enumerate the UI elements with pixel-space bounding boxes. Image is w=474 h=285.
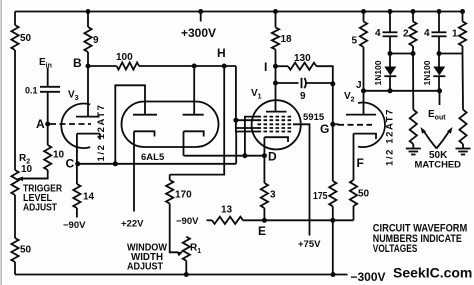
wire resistor 2 to junction [412,46,414,54]
node C to 6AL5 left plate junction [113,161,118,166]
resistor 50 lower-left [11,238,18,262]
node rail-B junction dot [86,9,91,14]
wire resistor 170 to R1 wiper [170,204,179,253]
pin 6AL5 left plate [133,114,157,116]
svg-text:MATCHED: MATCHED [415,160,462,170]
wire cap4b to junction [438,36,440,53]
svg-text:VOLTAGES: VOLTAGES [373,243,418,255]
potentiometer R2 [11,170,18,195]
wire Ein terminal [47,68,49,87]
node rail end dot [460,9,465,14]
svg-text:I: I [264,60,267,74]
pin V2 cathode [354,134,377,139]
wire resistor100 to H [139,65,236,67]
wire H column [170,66,225,175]
resistor 18 [272,28,279,50]
node rail dot x364 [361,9,366,14]
node I [273,64,278,69]
svg-text:100: 100 [116,52,133,63]
wire -90V to 13 [207,219,213,221]
wire to R2 wiper [22,170,48,179]
svg-text:−300V: −300V [351,270,386,284]
node G [330,122,335,127]
svg-text:1/2 12AT7: 1/2 12AT7 [96,103,107,161]
node B [86,64,91,69]
svg-text:4: 4 [375,28,381,39]
node diode2 cathode junction [437,88,442,93]
tube V2 envelope [358,103,385,148]
svg-text:13: 13 [221,205,233,216]
svg-text:H: H [217,46,226,60]
wire V3 cathode to C [76,134,78,164]
svg-text:18: 18 [281,34,293,45]
svg-text:−90V: −90V [176,216,199,227]
svg-text:B: B [73,56,82,70]
svg-text:ADJUST: ADJUST [23,203,57,214]
svg-text:G: G [320,122,329,136]
wire 130 to G column [316,66,332,84]
wire I to V1 plate [275,83,277,112]
wire resistor1 to pot right [462,54,465,110]
pin 6AL5 left cathode [134,131,155,136]
arrow 50K left wiper [424,132,437,149]
scan edge left [0,0,2,285]
svg-text:50: 50 [20,33,32,44]
wire pot right to ground [462,144,464,149]
svg-text:−90V: −90V [63,220,86,231]
node E [262,218,267,223]
wire 6AL5 right plate up [193,66,195,115]
wire G to V2 grid [333,123,339,125]
wire rail to resistor 5 [363,12,365,22]
node cap4b junction [437,51,442,56]
capacitor 4b [432,31,447,33]
svg-text:+300V: +300V [181,26,216,40]
resistor 170 [166,180,173,204]
pin V1 plate bar [266,111,287,113]
resistor 100 [117,62,139,69]
capacitor 0.1 [40,86,60,88]
node R1 rail junction [184,272,189,277]
wire C horizontal [78,163,237,165]
node H [222,64,227,69]
svg-text:1/2 12AT7: 1/2 12AT7 [385,108,396,166]
wire -300V bottom rail [15,274,348,276]
node resistor2 junction [411,51,416,56]
svg-text:9: 9 [300,91,306,102]
wire diode 2 to J wire [438,76,440,91]
node J [361,88,366,93]
resistor 9 [84,27,91,52]
wire resistor14 to -90V [76,208,78,218]
wire E wire to resistor 50 [353,206,355,220]
arrow R1 wiper [177,251,184,256]
wire D horizontal [184,155,265,157]
wire I down [275,66,277,83]
node rail dot x439 [437,9,442,14]
wire left column top [14,12,16,26]
svg-text:175: 175 [313,191,328,202]
pin 6AL5 right plate [183,114,204,116]
node 175-E junction [330,218,335,223]
wire B column from rail [87,12,89,28]
resistor 14 [73,184,80,208]
node rail-R18 dot [273,9,278,14]
svg-text:1N100: 1N100 [422,60,432,85]
svg-text:14: 14 [83,192,95,203]
wire H net to V1 grids [236,66,259,132]
wire I to capacitor 9 [276,82,299,84]
resistor 1 [459,22,466,47]
wire cap 9 to G column [307,82,333,84]
wire +300V top rail [15,11,463,13]
node cap4a junction [388,51,393,56]
resistor 175 [329,181,336,206]
svg-text:SeekIC.com: SeekIC.com [393,265,472,281]
tube V1 envelope [252,100,301,149]
svg-text:1N100: 1N100 [373,60,383,85]
wire G column to rail [332,220,334,274]
wire C to resistor 14 [76,164,78,184]
pin 6AL5 right cathode [184,131,204,136]
wire resistor 1 to junction [462,46,464,54]
arrow 50K right wiper [437,132,450,149]
potentiometer 50K right [459,110,466,144]
svg-text:4: 4 [424,28,430,39]
wire rail to cap 4b [438,12,440,33]
wire grid1 to D [245,117,259,156]
pin V3 grid dashed [50,123,91,125]
wire rail to cap 4a [389,12,391,33]
svg-text:50: 50 [358,189,370,200]
wire diode 1 to J wire [389,76,391,91]
svg-text:5: 5 [352,36,358,47]
resistor 50 right [350,180,357,206]
wire B to resistor 100 [88,65,117,67]
wire resistor 3 to E [263,208,265,220]
wire R1 to rail [185,261,187,275]
wire A down [47,124,49,145]
wire V2 plate to J [363,91,365,115]
diode D2 1N100 [433,67,445,76]
wire H to resistor 170 [169,175,171,180]
svg-text:D: D [268,150,277,164]
node G column rail dot [331,272,336,277]
resistor 130 [288,63,316,70]
svg-text:+75V: +75V [298,239,321,250]
svg-text:2: 2 [403,29,409,40]
node +300V rail junction dot [198,9,203,14]
svg-text:C: C [66,157,75,171]
wire V1 cathode to D [263,137,265,156]
wire junction to diode 1 [389,54,391,67]
wire R18 to I [275,50,277,67]
ground left pot [406,148,421,150]
svg-text:A: A [36,117,45,131]
svg-text:50: 50 [20,245,32,256]
wire D to resistor 3 [263,156,265,183]
wire junction to diode 2 [438,54,440,67]
resistor 13 [212,217,243,224]
pin V1 cathode [264,137,288,142]
resistor 10 (A to wiper) [44,145,51,170]
svg-text:E: E [258,224,266,238]
svg-text:J: J [356,80,362,91]
wire R2 wiper [22,178,48,180]
svg-text:10: 10 [53,150,65,161]
svg-text:6AL5: 6AL5 [141,152,165,163]
wire G column upper [332,84,334,181]
wire rail corner to resistor 1 [462,12,464,22]
node rail dot x390 [388,9,393,14]
svg-text:0.1: 0.1 [25,86,38,96]
svg-text:1: 1 [452,29,458,40]
wire Eout stub [439,91,441,105]
wire B to V3 plate [87,66,89,117]
pin V2 grid dashed [338,124,372,126]
wire cap4b junction to resistor1 [439,53,463,55]
wire cap4a junction to resistor2 junction [390,53,413,55]
wire +300V stub [200,12,202,22]
svg-text:9: 9 [93,35,99,46]
svg-text:F: F [357,156,364,170]
node A [45,122,50,127]
tube 6AL5 envelope [122,102,219,148]
diode D1 1N100 [384,67,396,76]
node diode1 cathode junction [388,88,393,93]
potentiometer R1 [183,237,190,261]
svg-text:ADJUST: ADJUST [127,262,163,273]
wire cap to A [47,92,49,124]
pin V3 plate bar [76,116,100,118]
wire V1 screen to +75V [293,124,310,235]
capacitor 4a [383,31,398,33]
pin V2 plate bar [346,114,376,116]
arrow R2 wiper [17,177,24,182]
svg-text:3: 3 [270,190,276,201]
node I cap junction [273,81,278,86]
svg-text:+22V: +22V [121,219,144,230]
wire rail to resistor 2 [412,12,414,22]
node C [75,161,80,166]
ground right pot [456,148,471,150]
wire left column bottom [14,262,16,275]
wire left column lower [14,195,16,238]
node D-grid junction [242,153,247,158]
wire E horizontal [243,219,354,221]
pin V3 cathode [77,134,100,140]
wire 6AL5 left plate route [115,85,145,164]
node G column cap junction [330,81,335,86]
node V1 grid2 junction [233,118,238,123]
wire pot left to ground [412,144,414,149]
svg-text:130: 130 [294,53,311,64]
capacitor 9 [301,78,303,88]
wire resistor2 junction to pot left [412,54,414,110]
svg-text:170: 170 [175,190,192,201]
potentiometer 50K left [410,110,417,144]
wire resistor 50 to F [353,134,355,180]
wire I to resistor 130 [276,65,289,67]
svg-text:10: 10 [21,164,33,175]
wire 6AL5 left cathode to +22V [133,131,135,211]
node D [262,153,267,158]
wire 175 to E wire [332,206,334,220]
node rail dot x413 [411,9,416,14]
resistor 2 [409,22,416,47]
wire C net to V1 grid [235,132,237,164]
wire 6AL5 right cathode to D wire [183,131,185,155]
wire left column middle [14,50,16,170]
wire resistor 5 to J [363,47,365,91]
wire rail to R18 [275,12,277,28]
wire cap4a to junction [389,36,391,53]
wire resistor9 to B [87,52,89,66]
tube V3 envelope [61,104,90,149]
resistor 5 [360,22,367,48]
node 6AL5 right plate junction [192,64,197,69]
wire J horizontal [364,90,440,92]
resistor 50 upper-left [11,25,18,50]
pin V1 grid rows dashed [258,116,292,118]
resistor 3 [261,183,268,208]
